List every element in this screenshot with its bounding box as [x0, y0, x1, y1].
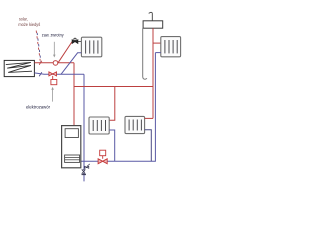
wire: radiator R4 supply stub: [145, 117, 153, 119]
svg-text:solar,: solar,: [19, 16, 28, 21]
drain valve on pipe: [82, 170, 87, 175]
wire: red riser down to boiler: [73, 63, 75, 126]
wire: blue downpipe right side: [81, 53, 156, 162]
check valve circle on red main: [53, 61, 58, 66]
wire: radiator R2 return stub: [155, 52, 160, 54]
wire: blue riser along boiler: [83, 74, 85, 161]
leader arrow to check valve: [53, 42, 56, 58]
wire: radiator R3 return drop: [109, 130, 115, 161]
svg-text:zaw. zwrotny: zaw. zwrotny: [42, 32, 64, 37]
dashed future solar return line: [37, 33, 41, 63]
wire: radiator R3 supply drop: [109, 87, 115, 121]
wire: blue diagonal branch from radiator 1: [61, 53, 81, 75]
wire: red supply main from exchanger: [34, 62, 74, 64]
wire: red branch to lower radiators: [74, 86, 153, 88]
tie-in slash on red main: [39, 61, 42, 65]
radiator R3: [89, 117, 109, 134]
dashed future solar supply line: [36, 31, 40, 61]
check valve at radiator 1: [72, 38, 81, 43]
svg-text:elektrozawór: elektrozawór: [26, 105, 50, 110]
tie-in slash on blue main: [39, 72, 42, 76]
leader arrow to solenoid valve: [51, 87, 54, 102]
wire: red diagonal branch to radiator 1: [58, 42, 72, 63]
wire: radiator R2 supply stub: [153, 42, 161, 44]
radiator R1: [81, 37, 101, 57]
overflow pipe: [143, 28, 147, 79]
solenoid valve (elektrozawór): [49, 72, 57, 85]
svg-text:może kiedyś: może kiedyś: [18, 22, 40, 27]
wire: red riser from expansion tank: [152, 28, 154, 118]
boiler: [62, 126, 81, 168]
wire: radiator R4 return drop: [145, 130, 152, 161]
wire: boiler drain pipe: [83, 161, 85, 181]
drain tap with handle: [85, 164, 90, 168]
note text "solar, może kiedyś": [18, 16, 40, 27]
radiator R2: [161, 37, 181, 57]
return shut-off valve with actuator: [98, 150, 107, 164]
heat exchanger (solar coil): [4, 60, 34, 76]
radiator R4: [125, 116, 145, 133]
wire: blue return main: [34, 73, 84, 74]
expansion tank: [143, 12, 163, 28]
